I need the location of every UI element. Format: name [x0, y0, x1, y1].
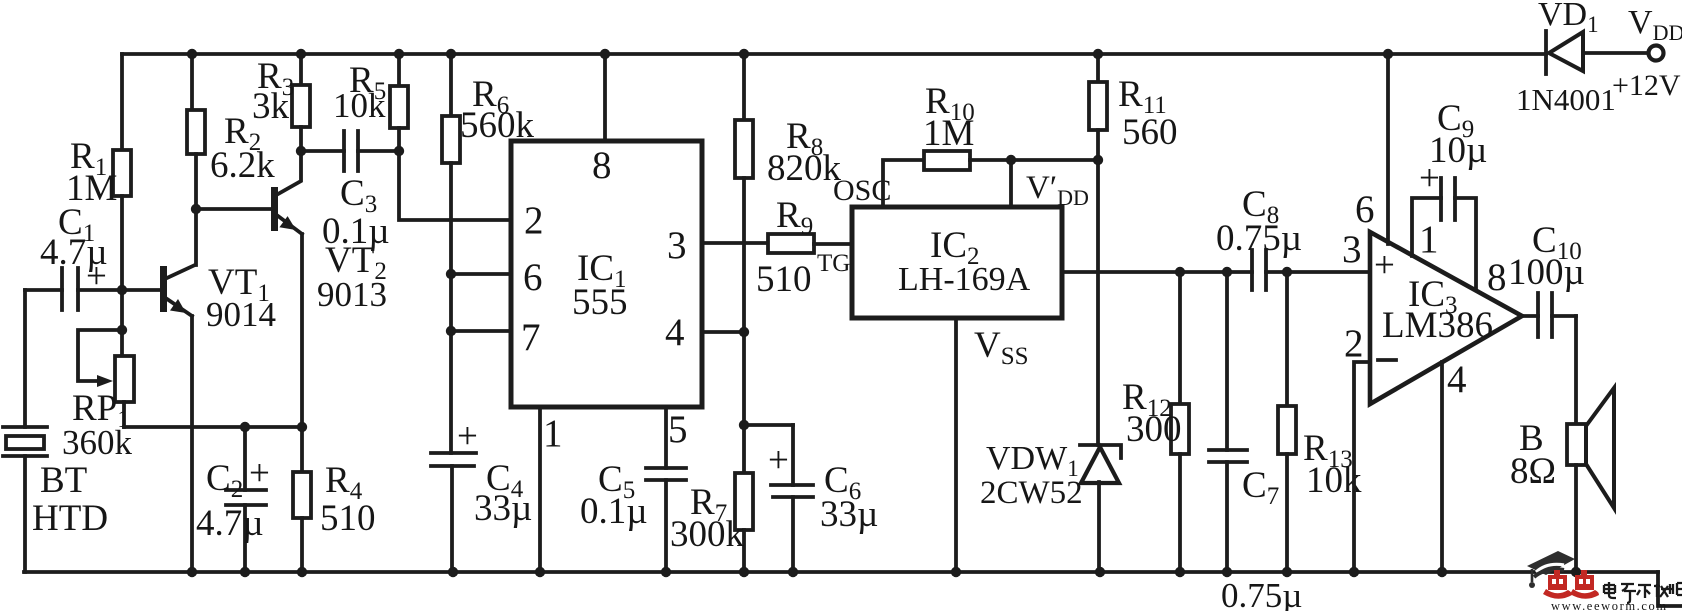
svg-text:1N4001: 1N4001	[1516, 82, 1616, 117]
svg-text:www.eeworm.com: www.eeworm.com	[1551, 599, 1668, 611]
IC1 555 timer box	[511, 141, 702, 455]
resistor R1 1M	[66, 54, 131, 290]
svg-text:6: 6	[523, 256, 543, 299]
capacitor C8 0.75u	[1216, 184, 1302, 290]
svg-text:9014: 9014	[206, 295, 276, 334]
diode VD1 1N4001	[1516, 0, 1648, 117]
svg-text:1M: 1M	[923, 113, 974, 154]
node C6 branch junction	[739, 420, 749, 430]
wire bottom-right rail end stub	[1658, 572, 1682, 606]
svg-text:33µ: 33µ	[820, 494, 878, 535]
resistor R4 510	[293, 422, 376, 572]
svg-text:+12V: +12V	[1612, 69, 1681, 102]
svg-text:+: +	[768, 440, 789, 481]
svg-text:510: 510	[320, 498, 376, 539]
svg-text:33µ: 33µ	[474, 488, 532, 529]
resistor R12 300	[1122, 267, 1189, 572]
resistor R7 300k	[670, 332, 753, 572]
svg-text:HTD: HTD	[32, 498, 108, 539]
wire IC2 VSS pin to ground	[954, 318, 958, 572]
svg-text:3: 3	[667, 224, 687, 267]
resistor R6 560k	[442, 54, 535, 453]
resistor R2 6.2k	[187, 54, 275, 265]
svg-text:6: 6	[1355, 188, 1375, 231]
svg-text:+: +	[249, 453, 270, 494]
wire IC1 pin 7	[446, 326, 511, 336]
capacitor C5 0.1u	[580, 407, 686, 572]
svg-text:4.7µ: 4.7µ	[196, 503, 264, 544]
wire LM386 pin 4 to ground	[1440, 362, 1444, 572]
resistor R9 510	[756, 195, 852, 300]
svg-text:LH-169A: LH-169A	[898, 261, 1031, 298]
node R5/C3/pin2 junction	[394, 146, 404, 156]
svg-text:7: 7	[521, 316, 541, 359]
svg-text:10µ: 10µ	[1429, 130, 1487, 171]
wire bottom ground rail	[24, 570, 1658, 574]
svg-text:300k: 300k	[670, 514, 745, 555]
wire RP1 bottom to R4	[124, 425, 302, 429]
wire LM386 pin 2 to ground	[1354, 362, 1370, 572]
capacitor C4 33u	[431, 416, 532, 572]
wire R5 junction to IC1 pin 2	[399, 151, 511, 220]
transistor VT2 9013	[196, 151, 387, 427]
svg-text:2CW52: 2CW52	[980, 475, 1083, 511]
wire IC1 pin 4	[702, 330, 744, 334]
svg-text:+: +	[86, 256, 107, 297]
svg-text:8Ω: 8Ω	[1510, 451, 1556, 492]
svg-text:0.1µ: 0.1µ	[580, 491, 648, 532]
resistor R11 560	[1089, 54, 1178, 160]
node IC1 pin4 / R8 junction	[739, 327, 749, 337]
capacitor C3 0.1u	[301, 131, 399, 252]
resistor R5 10k	[333, 54, 408, 151]
wire IC1 pin 3 to R9	[702, 241, 768, 245]
speaker B 8ohm	[1510, 316, 1614, 572]
svg-text:0.75µ: 0.75µ	[1216, 218, 1302, 259]
svg-text:5: 5	[668, 408, 688, 451]
wire R11 node down to zener	[1096, 160, 1100, 445]
op-amp IC3 LM386	[1342, 188, 1522, 404]
svg-text:2: 2	[524, 199, 544, 242]
svg-text:300: 300	[1126, 409, 1182, 450]
svg-text:360k: 360k	[62, 423, 133, 462]
svg-text:3: 3	[1342, 228, 1362, 271]
svg-text:+: +	[1374, 245, 1395, 286]
capacitor C9 10u	[1412, 98, 1487, 290]
node VDD terminal	[1612, 4, 1682, 102]
potentiometer RP1 360k	[62, 290, 134, 462]
svg-text:0.1µ: 0.1µ	[322, 211, 390, 252]
node junction dots bottom rail	[187, 567, 1581, 577]
svg-text:510: 510	[756, 259, 812, 300]
node R1/C1/VT1-base junction	[117, 285, 127, 295]
svg-text:100µ: 100µ	[1508, 252, 1585, 293]
svg-text:TG: TG	[817, 250, 850, 277]
svg-text:2: 2	[1344, 322, 1364, 365]
node R2/VT2-base/VT1-collector junction	[191, 204, 201, 214]
watermark logo	[1527, 551, 1682, 611]
node R3/C3/VT2-collector junction	[296, 146, 306, 156]
transducer BT HTD	[3, 290, 108, 572]
svg-text:820k: 820k	[767, 148, 842, 189]
wire IC1 pin 6	[446, 269, 511, 279]
wire IC2 output to LM386 pin3	[1062, 270, 1252, 274]
transistor VT1 9014	[122, 262, 276, 572]
svg-text:10k: 10k	[333, 86, 386, 125]
wire IC1 pin 1 to ground	[538, 407, 542, 572]
svg-text:4: 4	[665, 311, 685, 354]
svg-text:1: 1	[543, 412, 563, 455]
inverting input minus IC3	[1378, 358, 1396, 362]
svg-text:560: 560	[1122, 112, 1178, 153]
svg-text:3k: 3k	[252, 86, 290, 127]
svg-text:555: 555	[572, 282, 628, 323]
svg-text:+: +	[457, 416, 478, 457]
svg-text:LM386: LM386	[1382, 305, 1493, 346]
svg-text:0.75µ: 0.75µ	[1221, 576, 1302, 611]
capacitor C2 4.7u	[196, 422, 270, 572]
svg-text:BT: BT	[40, 460, 87, 501]
capacitor C6 33u	[744, 425, 878, 572]
IC2 LH-169A box	[852, 207, 1062, 318]
svg-text:9013: 9013	[317, 275, 387, 314]
resistor R3 3k	[252, 54, 310, 151]
resistor R13 10k	[1278, 267, 1362, 572]
wire IC1 pin 8 to rail	[603, 54, 607, 141]
capacitor C10 100u	[1508, 220, 1585, 337]
svg-text:1M: 1M	[66, 168, 117, 209]
wire BT bottom lead	[23, 456, 27, 572]
capacitor C1 4.7u	[25, 202, 122, 310]
svg-text:8: 8	[1487, 256, 1507, 299]
svg-text:6.2k: 6.2k	[210, 145, 275, 186]
svg-text:4: 4	[1447, 358, 1467, 401]
wire BT top lead	[23, 290, 27, 427]
resistor R8 820k	[735, 54, 842, 332]
svg-text:8: 8	[592, 144, 612, 187]
svg-text:1: 1	[1419, 218, 1439, 261]
wire LM386 pin 6 to rail	[1386, 54, 1390, 244]
zener diode VDW1 2CW52	[980, 440, 1121, 572]
resistor R10 1M	[883, 81, 1103, 207]
capacitor C7 0.75u	[1209, 267, 1302, 611]
wire top supply rail	[122, 52, 1546, 56]
node junction dots top rail	[187, 49, 1393, 59]
